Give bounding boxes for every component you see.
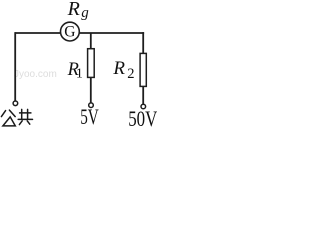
svg-text:5V: 5V <box>80 105 99 128</box>
svg-text:50V: 50V <box>128 108 157 128</box>
svg-text:1: 1 <box>76 67 83 82</box>
svg-text:G: G <box>64 24 75 41</box>
svg-text:2: 2 <box>127 66 134 82</box>
svg-text:g: g <box>81 5 89 21</box>
svg-text:R: R <box>112 58 125 79</box>
svg-text:Jyoo.com: Jyoo.com <box>14 69 57 80</box>
svg-text:R: R <box>67 0 80 20</box>
